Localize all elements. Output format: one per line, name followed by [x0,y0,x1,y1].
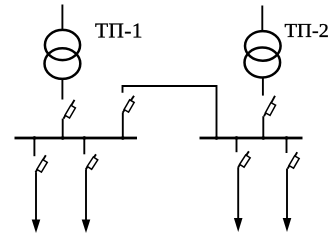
feeder 4 stub from right busbar [286,138,288,153]
feeder 2 stub from left busbar [83,138,85,154]
feeder 3 switch-fuse blade [238,151,249,167]
junction: bridge on right busbar [215,136,219,140]
wire: T2 to switch QS2 [262,77,264,95]
transformer T2 primary winding circle [245,31,281,61]
bridge tie switch QS3 blade [123,96,134,113]
feeder 3 stub from right busbar [236,138,238,152]
switch-fuse QS2 fuse body [265,103,275,116]
transformer T1 primary winding circle [45,30,80,60]
feeder 1 outgoing wire [35,172,37,226]
feeder 2 switch-fuse blade [86,154,96,169]
feeder 1 stub from left busbar [33,138,35,156]
switch-fuse QS1 fuse body [65,105,75,118]
wire: QS1 to left busbar [62,119,64,138]
feeder 3 arrowhead [234,218,243,232]
left busbar [15,137,138,140]
feeder 1 switch-fuse blade [36,155,46,172]
junction: bridge on left busbar [121,136,125,140]
right busbar [200,137,303,140]
switch-fuse QS1 blade [64,100,75,119]
wire: QS3 to left busbar [122,113,124,139]
transformer T2 secondary winding circle [244,48,280,78]
feeder 3 junction on busbar [235,136,239,140]
wire: incoming supply to T2 [261,6,263,32]
junction: T2 feed on right busbar [261,136,265,140]
switch-fuse QS2 blade [264,96,275,116]
feeder 4 junction on busbar [285,136,289,140]
feeder 4 switch-fuse body [289,156,299,168]
wire: T1 to switch QS1 [61,79,63,100]
svg-text:ТП-2: ТП-2 [285,20,329,42]
feeder 3 outgoing wire [237,167,239,225]
feeder 1 arrowhead [32,220,41,234]
bridge tie switch QS3 fuse body [124,100,134,112]
transformer T1 secondary winding circle [45,48,81,79]
junction: T1 feed on left busbar [61,136,65,140]
wire: incoming supply to T1 [61,5,63,32]
feeder 2 outgoing wire [85,169,87,226]
feeder 4 outgoing wire [286,169,288,226]
wire: QS2 to right busbar [262,116,264,138]
bridge tie: stub below top-left corner [123,86,217,138]
feeder 2 junction on busbar [82,136,86,140]
feeder 2 arrowhead [82,220,91,234]
feeder 4 arrowhead [283,218,292,232]
svg-text:ТП-1: ТП-1 [95,19,143,43]
feeder 1 switch-fuse body [37,160,47,173]
feeder 2 switch-fuse body [87,157,98,169]
feeder 3 switch-fuse body [240,155,251,167]
feeder 1 junction on busbar [33,136,37,140]
feeder 4 switch-fuse blade [288,152,298,168]
